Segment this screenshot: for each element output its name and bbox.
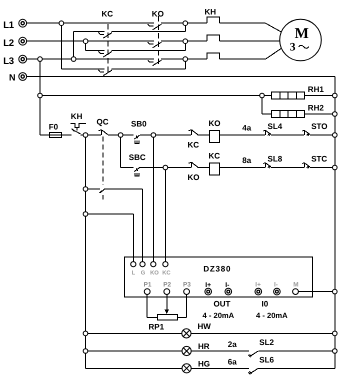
lamp HG xyxy=(182,360,210,373)
switch QC pole 2 xyxy=(99,189,104,193)
svg-text:M: M xyxy=(295,26,309,42)
wire row C in xyxy=(61,68,104,70)
wire L1 xyxy=(27,22,154,24)
wire KO1 out xyxy=(161,22,207,24)
wire rung2 f xyxy=(310,167,335,169)
contactor KO main pole 1 xyxy=(148,24,162,30)
mechanical link KO bank xyxy=(157,16,159,65)
junction lampW rail xyxy=(333,331,338,336)
svg-text:P3: P3 xyxy=(183,282,191,289)
terminal P1 xyxy=(144,282,152,295)
contactor KC main pole 1 xyxy=(99,32,113,38)
motor M 3~ xyxy=(280,19,322,61)
terminal I0 I- xyxy=(274,282,281,295)
wire rung1 d xyxy=(140,134,191,136)
terminal M xyxy=(293,282,299,295)
terminal L1 xyxy=(3,19,26,31)
terminal OUT I+ xyxy=(205,282,212,295)
terminal P2 xyxy=(163,282,171,295)
contact KO interlock xyxy=(188,162,200,182)
svg-text:I0: I0 xyxy=(262,300,269,309)
svg-text:3: 3 xyxy=(290,41,296,53)
wire RH feed xyxy=(40,95,262,97)
contactor KC main pole 2 xyxy=(99,51,113,57)
wire row B up to junction xyxy=(184,41,186,50)
coil KO xyxy=(209,119,221,142)
svg-text:L1: L1 xyxy=(3,20,15,31)
wire motor phase2 xyxy=(220,40,280,42)
svg-text:KO: KO xyxy=(150,270,159,277)
travel switch STC xyxy=(302,154,327,168)
junction phase1 merge xyxy=(183,21,188,26)
wire fuse drop xyxy=(39,96,41,136)
terminal box KO xyxy=(150,262,159,277)
terminal I0 I+ xyxy=(255,282,262,295)
wire N xyxy=(27,76,335,78)
travel switch STO xyxy=(302,122,327,136)
wire lampG right xyxy=(258,367,335,369)
wire row C up to junction xyxy=(184,59,186,69)
svg-text:L: L xyxy=(132,271,136,277)
wire rung2 b xyxy=(140,167,191,169)
svg-text:8a: 8a xyxy=(242,156,251,165)
svg-text:KO: KO xyxy=(188,173,200,182)
svg-text:KC: KC xyxy=(188,140,200,149)
resistor RH1 xyxy=(272,85,325,99)
wire qc2 in xyxy=(86,188,101,190)
wire box KC feed xyxy=(164,168,166,262)
svg-text:6a: 6a xyxy=(228,357,237,366)
wire rung2 e xyxy=(271,167,304,169)
wire box KO feed xyxy=(152,135,154,262)
wire L3 xyxy=(27,58,154,60)
wire L2 xyxy=(27,40,154,42)
wire rung1 e xyxy=(198,134,210,136)
svg-text:STO: STO xyxy=(311,122,327,131)
wire rung1 h xyxy=(310,134,335,136)
wire motor phase3 xyxy=(220,49,281,60)
terminal L3 xyxy=(3,55,26,67)
svg-text:DZ380: DZ380 xyxy=(203,265,231,274)
terminal OUT I- xyxy=(225,282,232,295)
svg-text:SL6: SL6 xyxy=(259,355,274,364)
junction RH feed xyxy=(38,93,43,98)
junction RH2 rail xyxy=(333,112,338,117)
svg-text:I-: I- xyxy=(225,282,229,289)
junction rung2 rail xyxy=(333,165,338,170)
contact KC interlock xyxy=(188,130,200,150)
svg-text:SL4: SL4 xyxy=(268,122,283,131)
wire row A in xyxy=(74,31,105,33)
wire rung2 d xyxy=(220,167,265,169)
junction rail lampR xyxy=(83,349,88,354)
svg-text:4 - 20mA: 4 - 20mA xyxy=(256,311,288,320)
svg-text:G: G xyxy=(141,270,146,277)
svg-text:HG: HG xyxy=(198,360,210,369)
svg-text:M: M xyxy=(293,282,298,289)
wire rung2 a xyxy=(121,167,134,169)
junction rail top xyxy=(83,133,88,138)
svg-text:N: N xyxy=(9,72,16,82)
limit switch SL2 xyxy=(248,338,274,357)
svg-text:RH2: RH2 xyxy=(308,103,325,112)
wire lampR right xyxy=(258,350,335,352)
lamp HR xyxy=(182,342,210,356)
limit switch SL6 xyxy=(248,355,274,374)
overload relay KH heater 1 xyxy=(207,17,220,23)
svg-text:HR: HR xyxy=(198,342,210,351)
pushbutton SBC xyxy=(129,153,146,176)
svg-text:QC: QC xyxy=(97,118,109,127)
wire RH1 in xyxy=(262,95,272,97)
wire rung1 a xyxy=(40,134,72,136)
wire lampG mid xyxy=(191,367,249,369)
junction SBC out xyxy=(163,165,168,170)
wire rung1 b xyxy=(80,134,101,136)
wire lampW right xyxy=(191,332,335,334)
wire rung2 drop xyxy=(120,135,122,168)
junction rung2 branch xyxy=(118,133,123,138)
junction L1 tap xyxy=(59,21,64,26)
wire row A up to junction xyxy=(184,23,186,31)
overload relay KH heater 3 xyxy=(207,53,220,59)
svg-text:KO: KO xyxy=(152,10,164,19)
wire L3 tap up xyxy=(73,32,75,60)
terminal box L xyxy=(131,262,136,277)
junction rail qc2 xyxy=(83,187,88,192)
svg-text:SL8: SL8 xyxy=(268,154,283,163)
resistor RH2 xyxy=(272,103,325,117)
controller D2380 box xyxy=(125,257,313,297)
wire L3 tap to fuse rung xyxy=(39,59,41,95)
svg-text:OUT: OUT xyxy=(214,300,231,309)
junction phase3 merge xyxy=(183,57,188,62)
wire P1 down xyxy=(147,295,157,318)
wire RH2 drop xyxy=(262,96,272,115)
wire left rail xyxy=(85,135,87,368)
coil KC xyxy=(209,152,221,175)
svg-text:RP1: RP1 xyxy=(149,322,165,331)
junction RH split xyxy=(260,93,265,98)
svg-text:SL2: SL2 xyxy=(259,338,274,347)
mechanical link KC bank xyxy=(107,24,109,73)
wire lampG left xyxy=(86,367,183,369)
fuse F0 xyxy=(49,122,62,137)
svg-text:P1: P1 xyxy=(144,282,152,289)
junction lampR rail xyxy=(333,349,338,354)
svg-text:I+: I+ xyxy=(205,282,211,289)
svg-text:KC: KC xyxy=(102,10,114,19)
wire lampR mid xyxy=(191,350,249,352)
contactor KC main pole 3 xyxy=(99,70,113,76)
svg-text:HW: HW xyxy=(198,322,212,331)
svg-text:KH: KH xyxy=(71,112,83,121)
junction L3 second tap xyxy=(38,57,43,62)
junction phase2 merge xyxy=(183,39,188,44)
wire lampR left xyxy=(86,350,183,352)
wire L1 tap down xyxy=(60,23,62,69)
junction L2 tap xyxy=(83,39,88,44)
contactor KO main pole 2 xyxy=(148,42,162,48)
wire KO3 out xyxy=(161,58,207,60)
wire L2 tap down xyxy=(85,41,87,50)
wire rung2 c xyxy=(198,167,210,169)
wire right rail xyxy=(334,77,336,369)
svg-text:SBC: SBC xyxy=(129,153,146,162)
svg-text:KO: KO xyxy=(209,119,221,128)
svg-text:KC: KC xyxy=(162,270,171,277)
wire RH2 out xyxy=(305,113,335,115)
limit switch SL8 xyxy=(263,154,282,168)
wire KO2 out xyxy=(161,40,207,42)
junction rail box feed xyxy=(83,212,88,217)
junction rail lampW xyxy=(83,331,88,336)
svg-text:I-: I- xyxy=(274,282,278,289)
wire rung1 c xyxy=(108,134,134,136)
svg-text:L2: L2 xyxy=(3,38,14,49)
wire motor phase1 xyxy=(220,23,281,32)
switch QC pole 1 xyxy=(97,118,109,136)
contactor KO main pole 3 xyxy=(148,60,162,66)
svg-text:P2: P2 xyxy=(163,282,171,289)
wire box L feed xyxy=(86,214,134,262)
wire P3 down xyxy=(177,295,186,318)
mechanical link QC xyxy=(102,137,104,200)
terminal box KC xyxy=(162,262,171,277)
junction M rail xyxy=(333,289,338,294)
junction L3 tap xyxy=(71,57,76,62)
wire row B in xyxy=(86,49,105,51)
wire lampW left xyxy=(86,332,182,334)
wire qc2 out xyxy=(105,189,143,262)
svg-text:RH1: RH1 xyxy=(308,85,325,94)
junction SB0 out xyxy=(151,133,156,138)
junction rung1 rail xyxy=(333,133,338,138)
wire rung1 g xyxy=(271,134,304,136)
terminal P3 xyxy=(183,282,191,295)
svg-text:4 - 20mA: 4 - 20mA xyxy=(203,311,235,320)
svg-text:KC: KC xyxy=(209,152,221,161)
wire row C out xyxy=(112,68,186,70)
svg-text:4a: 4a xyxy=(242,124,251,133)
overload relay KH heater 2 xyxy=(207,35,220,41)
lamp HW xyxy=(182,322,211,338)
svg-text:SB0: SB0 xyxy=(131,120,147,129)
limit switch SL4 xyxy=(263,122,282,136)
terminal L2 xyxy=(3,37,26,49)
potentiometer RP1 xyxy=(149,295,178,332)
terminal N xyxy=(9,72,27,82)
wire RH1 out xyxy=(305,95,335,97)
wire row B out xyxy=(112,49,186,51)
junction RH1 rail xyxy=(333,93,338,98)
overload relay KH contact xyxy=(71,112,87,134)
svg-text:F0: F0 xyxy=(49,122,59,131)
wire row A out xyxy=(112,31,186,33)
svg-text:KH: KH xyxy=(205,8,217,17)
wire M to rail xyxy=(298,291,334,293)
pushbutton SB0 xyxy=(131,120,147,144)
wire rung1 f xyxy=(220,134,265,136)
svg-text:STC: STC xyxy=(311,154,327,163)
svg-text:2a: 2a xyxy=(228,340,237,349)
svg-text:I+: I+ xyxy=(255,282,261,289)
terminal box G xyxy=(140,262,146,277)
svg-text:L3: L3 xyxy=(3,56,14,67)
